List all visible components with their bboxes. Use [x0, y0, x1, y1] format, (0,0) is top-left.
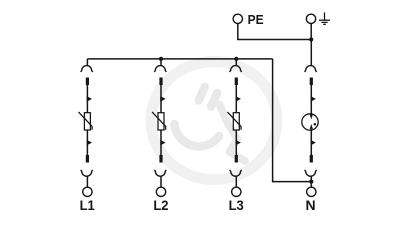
socket contact L3 bottom	[230, 170, 242, 176]
arrow L2 lower	[160, 140, 165, 146]
spark gap body	[302, 114, 318, 130]
watermark Phoenix Contact logo	[151, 62, 277, 180]
watermark mouth arc	[175, 124, 220, 146]
arrow L3 upper	[236, 96, 241, 102]
arrow N lower	[311, 140, 316, 146]
branch N spark gap arrester	[302, 40, 318, 214]
svg-text:L1: L1	[80, 198, 96, 214]
terminal N	[307, 187, 316, 196]
plug contact N top	[310, 78, 313, 86]
arrow N upper	[311, 96, 316, 102]
svg-text:L2: L2	[153, 198, 168, 214]
plug contact L3 top	[235, 78, 238, 86]
plug contact L3 bottom	[235, 155, 238, 163]
junction L2 bus	[159, 57, 163, 61]
wire L2 upper	[160, 85, 162, 113]
spark gap gas dot	[314, 123, 317, 126]
watermark slot 1	[199, 87, 205, 101]
arrow L1 lower	[87, 140, 92, 146]
svg-text:L3: L3	[229, 198, 245, 214]
socket contact N bottom	[305, 170, 317, 176]
wire L2 lower	[160, 130, 162, 155]
terminal L2	[156, 187, 165, 196]
wire N upper	[310, 85, 312, 115]
arrow L1 upper	[87, 96, 92, 102]
branch L3 varistor arrester	[227, 59, 244, 213]
socket contact L1 bottom	[81, 170, 93, 176]
svg-text:N: N	[305, 197, 315, 213]
wire L3 stub	[235, 59, 237, 65]
branch L1 varistor arrester	[79, 59, 96, 213]
socket contact N top	[305, 66, 317, 72]
wire L bus	[87, 58, 272, 60]
plug contact L2 top	[159, 78, 162, 86]
terminal PE	[233, 14, 242, 23]
wire N lower	[310, 129, 312, 155]
wire L1 stub	[86, 59, 88, 65]
terminal ground	[306, 14, 315, 23]
wire PE drop and horizontal to N branch	[238, 24, 311, 40]
socket contact L2 top	[154, 66, 166, 72]
wire bus riser to N terminal	[273, 59, 312, 182]
branch L2 varistor arrester	[152, 59, 168, 213]
socket contact L2 bottom	[154, 170, 166, 176]
socket contact L1 top	[81, 66, 93, 72]
arrow L3 lower	[236, 140, 241, 146]
spark gap bottom electrode arrowhead	[310, 124, 313, 129]
wire L3 terminal stem	[235, 176, 237, 187]
watermark circle	[151, 62, 277, 180]
wire ground terminal drop	[310, 24, 312, 40]
watermark flash	[220, 105, 246, 162]
wire N terminal stem	[310, 176, 312, 187]
arrow L2 upper	[160, 96, 165, 102]
watermark slot 2	[211, 93, 217, 107]
terminal L1	[83, 187, 92, 196]
spark gap top electrode arrowhead	[310, 114, 313, 119]
ground symbol	[319, 12, 330, 24]
wire L3 lower	[235, 130, 237, 155]
terminal L3	[232, 187, 241, 196]
wire L3 upper	[235, 85, 237, 113]
wire L1 upper	[86, 85, 88, 113]
junction N bottom	[309, 180, 313, 184]
varistor L3	[227, 112, 241, 130]
varistor L1	[79, 112, 93, 130]
plug contact N bottom	[310, 155, 313, 163]
svg-text:PE: PE	[248, 13, 264, 28]
plug contact L1 top	[86, 78, 89, 86]
wire L2 stub	[160, 59, 162, 65]
junction PE/ground/N	[309, 37, 313, 41]
wire L1 terminal stem	[86, 176, 88, 187]
plug contact L1 bottom	[86, 155, 89, 163]
socket contact L3 top	[230, 66, 242, 72]
wire N stub from PE junction	[310, 40, 312, 66]
wire L1 lower	[86, 130, 88, 155]
plug contact L2 bottom	[159, 155, 162, 163]
junction L3 bus	[234, 57, 238, 61]
varistor L2	[152, 112, 166, 130]
wire L2 terminal stem	[160, 176, 162, 187]
